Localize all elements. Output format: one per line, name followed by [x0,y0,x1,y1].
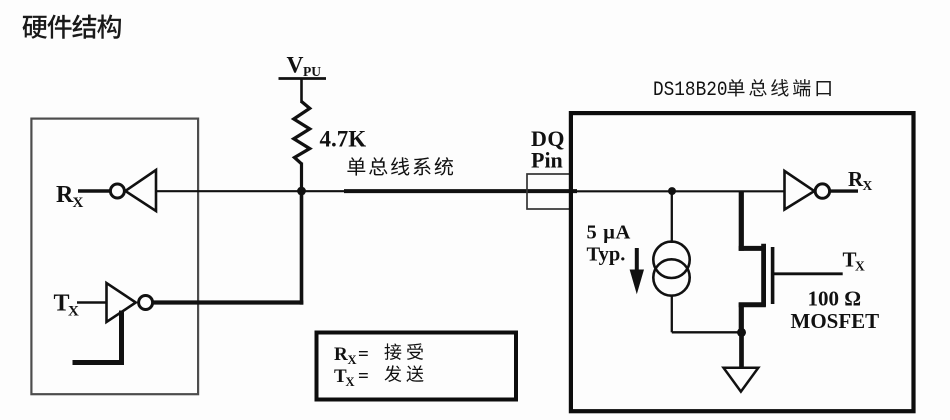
label legend RX = 接受 (receive) [334,344,369,367]
label DQ Pin [531,126,565,173]
label 单总线系统 (1-wire bus system) [347,157,453,176]
inverter triangle U3 (slave RX, points right) [785,171,815,210]
wire: resistor to bus junction [300,163,303,193]
box: DQ pin [527,174,570,209]
wire: slave RX output [830,189,858,192]
svg-text:X: X [346,375,355,389]
inverter bubble (RX gate U1) [110,184,124,198]
wire: bottom rail to MOSFET source [672,331,742,333]
power rail bar VPU [279,77,327,80]
label VPU (pull-up supply) [287,53,322,80]
wire: MOSFET drain lead (horizontal) [739,246,766,251]
svg-text:PU: PU [303,64,321,79]
inverter bubble (slave RX gate U3) [815,184,829,198]
svg-text:=: = [358,344,369,365]
current source I1 (lower circle) [653,259,689,295]
label 5 uA Typ. current value [587,222,631,266]
inverter bubble (TX gate U2) [139,296,153,310]
ground symbol [724,368,759,392]
wire: 1-wire bus thin segment (left) [156,190,346,192]
wire: MOSFET drain drop from bus [739,191,744,251]
wire: TX gate return stub (horizontal) [73,360,125,365]
svg-text:Typ.: Typ. [587,244,626,266]
svg-text:MOSFET: MOSFET [791,309,880,333]
wire: 1-wire bus thick segment to DQ [344,189,577,193]
svg-text:DS18B20: DS18B20 [653,79,728,102]
arrow: current direction (down) [630,248,644,294]
svg-text:=: = [358,366,369,387]
label RX (master receive) [56,182,84,211]
wire: junction down to current source [671,191,673,243]
svg-text:Pin: Pin [531,148,563,173]
wire: TX output to bus junction (horizontal) [153,300,304,304]
transistor Q1 channel plate [761,244,766,307]
current source I1 (upper circle) [653,242,689,278]
node: junction dot at MOSFET source / ground [737,328,746,337]
inverter triangle U2 (points right) [107,283,136,322]
label legend TX = 发送 (transmit) [334,366,369,389]
title 硬件结构 (hardware structure) [23,15,122,39]
svg-text:X: X [855,259,865,274]
wire: MOSFET source drop to rail [739,303,744,333]
svg-text:X: X [68,304,79,320]
label RX (slave receive) [848,167,873,193]
svg-text:X: X [863,178,873,193]
inverter triangle U1 (points left) [125,170,156,211]
svg-text:5 µA: 5 µA [587,222,631,244]
transistor Q1 gate plate [771,247,775,304]
svg-text:4.7K: 4.7K [320,127,367,152]
wire: gate lead to TX [773,272,843,275]
node: junction dot at current source [668,187,676,195]
wire: TX output riser to junction (vertical) [300,191,304,305]
box: DS18B20 slave (right block) [571,113,914,411]
svg-text:R: R [56,182,74,208]
svg-text:V: V [287,53,304,79]
wire: internal bus (thin) [575,190,786,192]
wire: ground drop [739,332,744,368]
label TX (master transmit) [54,291,80,320]
wire: TX gate return stub (vertical) [119,311,124,363]
svg-text:100 Ω: 100 Ω [808,287,862,311]
label TX (slave gate) [843,248,866,274]
resistor R1 4.7K zigzag [294,102,310,164]
svg-text:X: X [348,353,357,367]
wire: VPU to resistor [300,79,303,104]
label 100 Ω MOSFET [791,287,880,334]
wire: MOSFET source lead (horizontal) [739,302,766,307]
box: legend [317,333,517,400]
svg-text:X: X [73,195,84,211]
wire: TX input stub [77,301,108,303]
wire: RX stub [78,189,110,193]
node: junction dot at pull-up/bus [297,187,306,196]
svg-text:R: R [334,344,348,365]
box: bus master (left block) [31,119,198,395]
wire: current source to bottom rail [671,295,673,333]
